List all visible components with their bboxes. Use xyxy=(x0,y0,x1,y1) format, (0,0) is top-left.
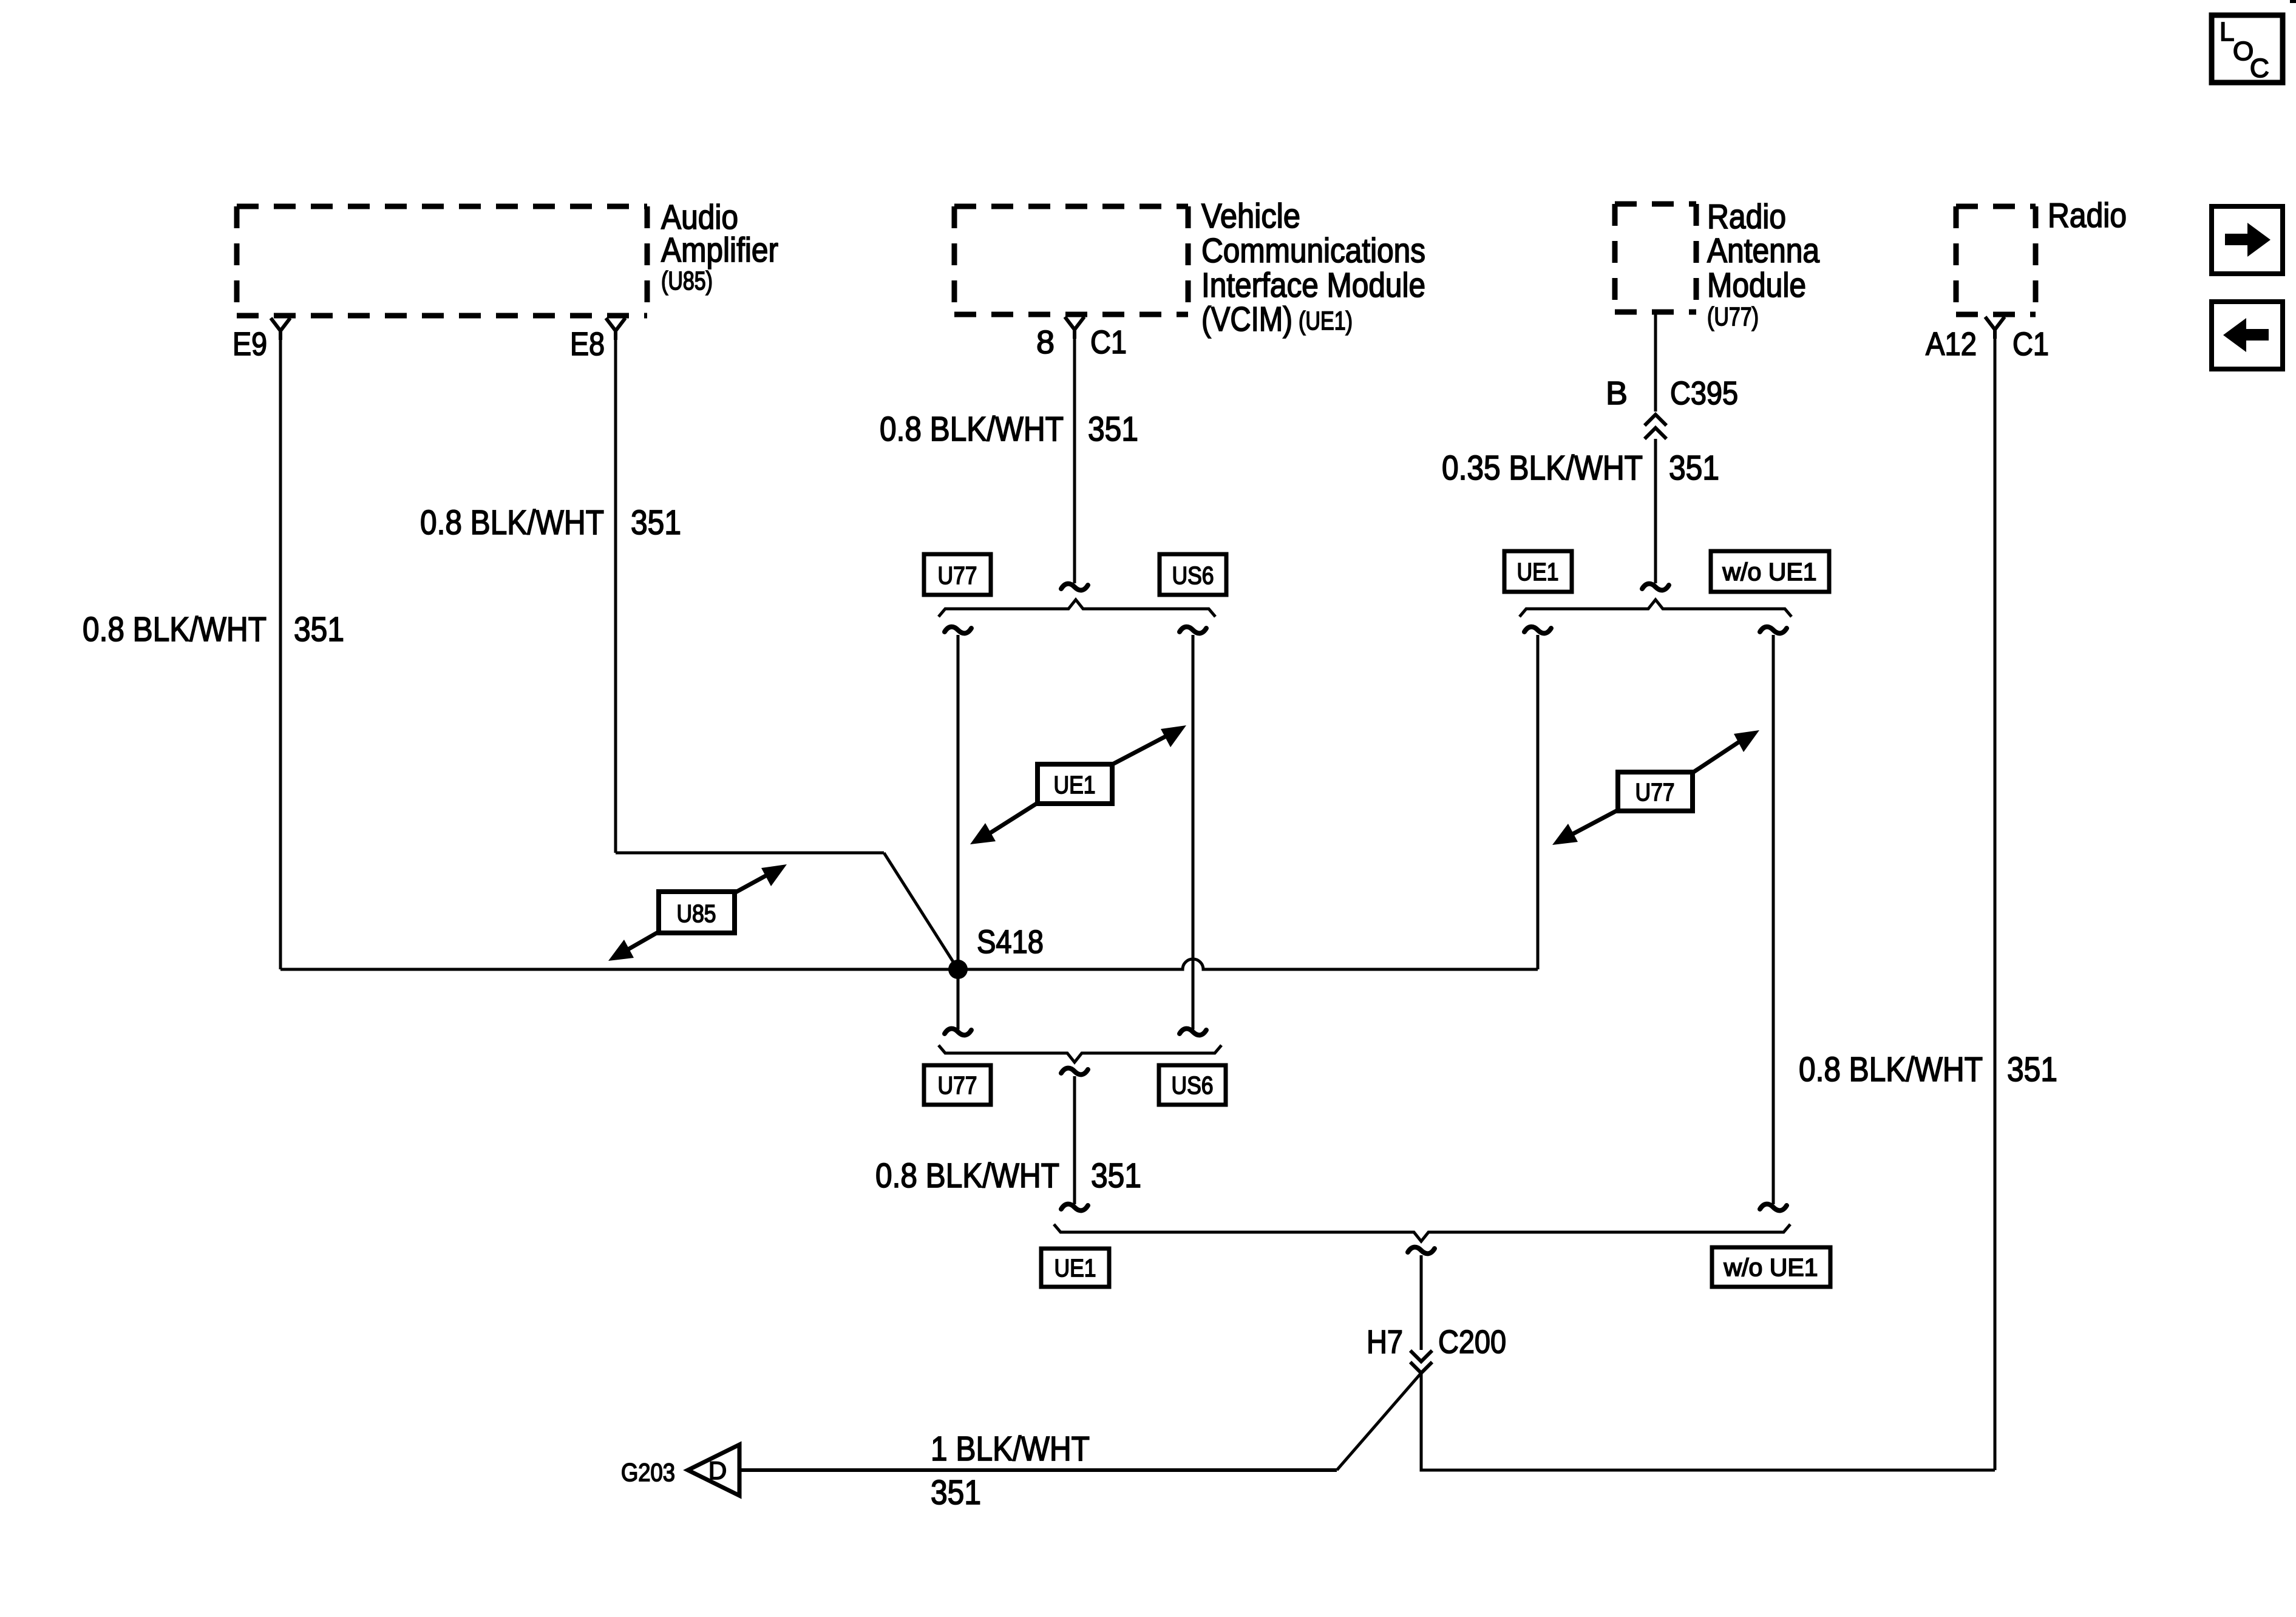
wire E8 horizontal xyxy=(616,852,884,855)
svg-text:0.8 BLK/WHT: 0.8 BLK/WHT xyxy=(1799,1050,1983,1089)
svg-text:B: B xyxy=(1606,375,1628,412)
svg-text:w/o UE1: w/o UE1 xyxy=(1722,558,1816,586)
svg-text:H7: H7 xyxy=(1367,1324,1403,1360)
wire E9 vertical xyxy=(279,331,282,969)
pin E9 connector fork xyxy=(271,318,290,340)
module Audio Amplifier (U85) dashed box xyxy=(237,206,647,316)
svg-text:Module: Module xyxy=(1707,266,1806,305)
option break squiggle (US6 branch bottom) xyxy=(1180,1029,1206,1036)
svg-text:351: 351 xyxy=(2007,1050,2057,1089)
svg-text:U77: U77 xyxy=(938,1071,977,1099)
wire label 0.8 BLK/WHT 351 (VCIM column) xyxy=(880,410,1138,449)
svg-text:D: D xyxy=(708,1456,727,1485)
svg-text:UE1: UE1 xyxy=(1054,771,1096,799)
svg-text:C1: C1 xyxy=(2012,326,2049,362)
wire w/o UE1 branch vertical xyxy=(1772,635,1775,1204)
svg-text:(U85): (U85) xyxy=(661,266,713,296)
svg-text:0.8 BLK/WHT: 0.8 BLK/WHT xyxy=(875,1156,1059,1195)
option merge brace (below U77/US6 branches) xyxy=(939,1045,1221,1062)
svg-text:351: 351 xyxy=(931,1473,981,1512)
module Vehicle Communications Interface Module (VCIM) (UE1) dashed box xyxy=(954,206,1188,314)
option box w/o UE1 (right upper) xyxy=(1711,551,1829,592)
svg-text:US6: US6 xyxy=(1172,1071,1214,1099)
svg-text:U77: U77 xyxy=(938,561,977,589)
svg-text:351: 351 xyxy=(1088,410,1138,449)
option box UE1 (right upper) xyxy=(1504,551,1572,592)
option split brace (UE1 / w/o UE1) xyxy=(1520,600,1792,617)
option box U77 (lower) xyxy=(924,1065,991,1105)
svg-text:351: 351 xyxy=(1091,1156,1141,1195)
svg-text:UE1: UE1 xyxy=(1055,1254,1096,1282)
label Vehicle Communications Interface Module (VCIM) (UE1) xyxy=(1201,197,1425,339)
LOC symbol box xyxy=(2212,15,2283,83)
option box US6 (upper) xyxy=(1160,554,1226,595)
option break squiggle (U77 branch top) xyxy=(945,627,971,634)
svg-text:E9: E9 xyxy=(233,326,267,362)
svg-text:C: C xyxy=(2250,53,2269,83)
arrow callout UE1 (center options) xyxy=(970,725,1186,844)
svg-text:Radio: Radio xyxy=(1707,197,1786,236)
wire label 0.8 BLK/WHT 351 (radio ground wire) xyxy=(1799,1050,2057,1089)
svg-text:0.35 BLK/WHT: 0.35 BLK/WHT xyxy=(1442,449,1643,487)
wire below C200 down and right to radio wire xyxy=(1421,1373,1995,1470)
option break squiggle (merged wire top) xyxy=(1061,1068,1088,1075)
wire label 0.8 BLK/WHT 351 (E8 column) xyxy=(420,503,681,542)
wire bottom merged vertical xyxy=(1420,1255,1423,1350)
svg-text:0.8 BLK/WHT: 0.8 BLK/WHT xyxy=(83,610,267,649)
option break squiggle (merged wire bottom) xyxy=(1061,1204,1088,1211)
svg-text:351: 351 xyxy=(294,610,344,649)
option split brace (U77 / US6) xyxy=(939,600,1215,617)
wire ground horizontal to G203 xyxy=(739,1468,1337,1472)
svg-text:A12: A12 xyxy=(1926,326,1977,362)
module Radio Antenna Module (U77) dashed box xyxy=(1615,204,1696,312)
wire UE1 branch vertical xyxy=(1537,635,1540,969)
svg-text:C395: C395 xyxy=(1670,375,1738,412)
svg-text:351: 351 xyxy=(1669,449,1719,487)
inline connector C200 chevrons xyxy=(1410,1351,1432,1373)
option break squiggle (VCIM wire end) xyxy=(1061,584,1088,591)
wire label 0.35 BLK/WHT 351 xyxy=(1442,449,1719,487)
svg-text:Interface Module: Interface Module xyxy=(1201,266,1425,305)
pin A12 C1 connector fork (Radio) xyxy=(1985,317,2005,339)
wire merged option vertical xyxy=(1073,1076,1076,1204)
svg-text:U85: U85 xyxy=(677,900,716,927)
label Radio Antenna Module (U77) xyxy=(1707,197,1819,331)
wire U77 branch vertical through S418 xyxy=(957,635,960,1029)
wire VCIM pin 8 vertical xyxy=(1073,331,1076,583)
option break squiggle (UE1 branch top) xyxy=(1524,627,1551,634)
arrow callout U77 (right options) xyxy=(1552,730,1759,845)
option break squiggle (bottom merge wire top) xyxy=(1408,1247,1435,1254)
splice S418 junction dot xyxy=(948,960,968,979)
svg-text:w/o UE1: w/o UE1 xyxy=(1723,1253,1818,1281)
svg-text:(U77): (U77) xyxy=(1707,302,1759,331)
svg-text:UE1: UE1 xyxy=(1517,558,1559,586)
option box U77 (upper) xyxy=(924,554,991,595)
option break squiggle (w/o UE1 branch bottom) xyxy=(1760,1204,1787,1211)
svg-text:U77: U77 xyxy=(1635,778,1675,806)
svg-text:1 BLK/WHT: 1 BLK/WHT xyxy=(931,1429,1090,1468)
module Radio dashed box xyxy=(1956,206,2036,314)
wire diagonal from C200 to ground run xyxy=(1337,1373,1421,1470)
wire E8 vertical xyxy=(614,331,617,853)
label Audio Amplifier (U85) xyxy=(661,198,778,296)
svg-text:(VCIM): (VCIM) xyxy=(1201,300,1292,339)
wire horizontal through S418 with hop over US6 branch xyxy=(280,959,1538,969)
svg-text:Radio: Radio xyxy=(2048,196,2127,235)
ground G203 triangle with D xyxy=(688,1445,739,1496)
svg-text:L: L xyxy=(2220,17,2234,47)
option break squiggle (antenna wire end) xyxy=(1642,584,1669,591)
svg-text:E8: E8 xyxy=(570,326,605,362)
option break squiggle (U77 branch bottom) xyxy=(945,1029,971,1036)
svg-text:C1: C1 xyxy=(1090,324,1127,361)
arrow callout U85 (E8/E9 wires) xyxy=(608,864,787,961)
corner registration mark xyxy=(2290,0,2296,3)
wire antenna below C395 xyxy=(1654,439,1657,583)
option break squiggle (w/o UE1 branch top) xyxy=(1760,627,1787,634)
svg-text:Antenna: Antenna xyxy=(1707,231,1819,270)
pin E8 connector fork xyxy=(606,318,625,340)
svg-text:8: 8 xyxy=(1036,324,1055,361)
option box UE1 (bottom) xyxy=(1041,1249,1109,1287)
inline connector C395 chevrons xyxy=(1645,415,1666,439)
svg-text:G203: G203 xyxy=(621,1458,675,1486)
option box US6 (lower) xyxy=(1159,1065,1226,1105)
option box w/o UE1 (bottom) xyxy=(1712,1247,1830,1287)
left-arrow navigation box xyxy=(2212,302,2283,369)
wire Radio Antenna Module pin B vertical xyxy=(1654,312,1657,412)
right-arrow navigation box xyxy=(2212,206,2283,274)
wire label 0.8 BLK/WHT 351 (merged column) xyxy=(875,1156,1141,1195)
option break squiggle (US6 branch top) xyxy=(1180,627,1206,634)
svg-text:0.8 BLK/WHT: 0.8 BLK/WHT xyxy=(420,503,604,542)
svg-text:US6: US6 xyxy=(1172,561,1214,589)
svg-text:C200: C200 xyxy=(1438,1324,1506,1360)
svg-text:(UE1): (UE1) xyxy=(1299,307,1353,336)
svg-text:351: 351 xyxy=(631,503,681,542)
svg-text:Communications: Communications xyxy=(1201,231,1425,270)
wire label 0.8 BLK/WHT 351 (E9 column) xyxy=(83,610,344,649)
wire E8 diagonal to S418 xyxy=(884,853,958,969)
svg-text:Amplifier: Amplifier xyxy=(661,231,778,269)
svg-text:0.8 BLK/WHT: 0.8 BLK/WHT xyxy=(880,410,1064,449)
pin 8 C1 connector fork (VCIM) xyxy=(1065,317,1084,339)
svg-text:Vehicle: Vehicle xyxy=(1201,197,1300,236)
wire US6 branch vertical xyxy=(1192,635,1195,1029)
svg-text:S418: S418 xyxy=(977,924,1044,960)
wire Radio A12 vertical xyxy=(1994,331,1997,1470)
option merge brace (UE1 / w/o UE1 bottom) xyxy=(1054,1224,1790,1241)
